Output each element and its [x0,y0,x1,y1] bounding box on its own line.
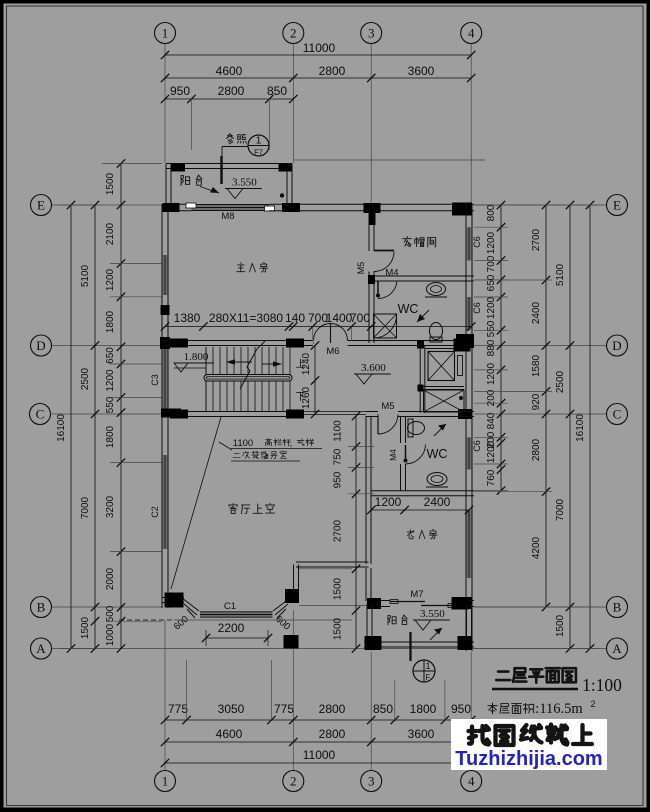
svg-text:760: 760 [486,469,497,486]
stair up arrow [226,359,252,365]
svg-text:2400: 2400 [424,495,451,509]
grid bubble 4 bottom [461,771,482,792]
column balcony top-right [279,164,292,172]
svg-text:2800: 2800 [319,727,346,741]
right outer dim labels [555,263,566,637]
svg-text:1500: 1500 [333,577,344,600]
svg-text:3600: 3600 [408,64,435,78]
svg-text:4600: 4600 [216,64,243,78]
column W-B [165,593,184,608]
void diagonal line [171,417,221,589]
stair side rails [174,347,206,412]
right mid dim chain line [542,201,550,611]
middle dim labels [333,420,344,640]
level arrow bottom [430,628,442,640]
svg-text:1: 1 [425,661,430,671]
svg-text:650: 650 [486,274,497,291]
stair label 上 [296,359,304,367]
svg-text:775: 775 [274,702,294,716]
grid bubble 3 top [361,23,382,44]
svg-text:280X11=3080: 280X11=3080 [209,311,284,325]
label M5 bedroom [356,262,366,275]
svg-text:2200: 2200 [218,621,245,635]
north exterior wall row E segment 3 [348,204,474,211]
svg-text:F: F [426,673,431,682]
dim row 1200/2400 [367,495,473,514]
svg-text:5100: 5100 [80,264,91,287]
label C1 [224,601,236,612]
column D-1 [170,339,188,348]
svg-text:850: 850 [267,84,287,98]
svg-text:A: A [612,641,622,656]
west exterior wall [162,204,168,608]
svg-text:3.550: 3.550 [232,177,257,189]
north exterior wall row E segment 2 [269,204,348,211]
svg-text:C3: C3 [150,374,160,386]
label M4 upper [385,268,398,279]
svg-text:850: 850 [373,702,393,716]
svg-text:500: 500 [105,605,116,622]
reference bubble top [248,135,269,157]
svg-text:950: 950 [451,702,471,716]
cloakroom south wall [372,276,475,281]
column W-C [161,409,181,418]
svg-text:A: A [36,641,46,656]
row A crossing line [162,648,474,650]
svg-text:950: 950 [170,84,190,98]
title scale 1:100 [582,675,622,695]
row B crossing line [299,605,367,607]
label C3 [150,374,160,386]
svg-text:3050: 3050 [218,702,245,716]
railing note leader [219,442,232,450]
elderly west wall [366,568,371,601]
svg-text:B: B [613,600,622,615]
svg-text:WC: WC [427,447,448,461]
svg-text:11000: 11000 [303,41,336,55]
svg-text:4200: 4200 [531,536,542,559]
grid bubble 1 top [155,23,176,44]
grid bubble 3 bottom [361,771,382,792]
svg-text:D: D [612,338,621,353]
svg-text:2: 2 [290,774,297,789]
svg-text:C: C [36,407,45,422]
toilet upper [430,323,443,343]
svg-text:140: 140 [285,311,305,325]
door M7 sliding [390,600,456,608]
east window C6 b [466,297,472,330]
stair down arrow [262,361,282,367]
right mid dim labels [531,228,542,559]
east exterior wall [466,204,472,651]
basin lower [426,473,448,488]
left outer dim chain line [67,201,75,653]
column balcony bottom-left [365,636,382,650]
section line bottom [409,632,411,661]
bottom balcony west wall [367,604,372,649]
grid bubble C right [607,404,628,425]
level mark 3.600 hall [354,362,391,384]
svg-text:7000: 7000 [555,498,566,521]
svg-text:2: 2 [290,26,297,41]
svg-text:4: 4 [468,26,475,41]
grid row line A [52,648,606,650]
svg-text:2400: 2400 [531,301,542,324]
column balcony top-left [171,164,185,172]
west window bedroom [162,255,168,295]
left mid dim labels [80,264,91,639]
label M6 [326,346,339,357]
svg-text:E: E [613,198,621,213]
svg-text:C6: C6 [472,302,482,314]
svg-text:1500: 1500 [333,617,344,640]
svg-text:775: 775 [168,702,188,716]
svg-text:,: , [290,438,293,449]
grid bubble E left [31,195,52,216]
elderly south wall segment R [456,601,474,607]
door M4 lower [404,445,426,465]
svg-text:1500: 1500 [80,616,91,639]
column E4-D [456,334,474,348]
east window C6 c [466,437,472,469]
living step wall vertical [294,565,299,599]
column bay right [285,589,299,603]
left inner dim labels [105,172,116,646]
grid line column 4 [470,44,472,770]
wc arrow lower [434,424,446,436]
svg-text:1200: 1200 [486,231,497,254]
room label 衣帽间 [403,236,436,246]
stair south wall [163,412,303,417]
bay dim 2200 [202,621,272,646]
svg-text:1500: 1500 [555,614,566,637]
grid line column 2 [292,44,294,770]
bay dim 600 left [172,614,191,633]
reference note 参照 [226,134,246,144]
stair label 下 [297,393,305,401]
bottom dim total 11000 [161,748,476,767]
level mark 3.550 bottom [413,608,450,630]
svg-text:800: 800 [486,204,497,221]
living south-east wall [289,598,297,603]
svg-text:M8: M8 [221,211,234,222]
balcony top railing wall [166,164,292,169]
grid bubble D left [31,335,52,356]
svg-text:1500: 1500 [105,172,116,195]
bottom balcony railing [364,642,474,647]
svg-text:M5: M5 [381,401,394,412]
label M4 lower [388,449,398,461]
balcony left wall [166,164,171,205]
svg-text:840: 840 [486,412,497,429]
svg-text:3: 3 [368,26,375,41]
left mid dim chain line [91,201,99,653]
svg-text:1200: 1200 [105,268,116,291]
column W-mid [161,305,170,315]
label C6 a [472,236,482,248]
column D-2 [286,339,304,348]
grid bubble B right [607,597,628,618]
level arrow balcony [200,187,219,194]
title 二层平面图 [496,668,576,682]
left extension lines [60,164,162,649]
svg-text:M4: M4 [388,449,398,461]
living south-west wall [163,598,185,603]
west window C2 [162,455,168,549]
watermark text 找图纸就上 [469,725,593,746]
svg-text:3200: 3200 [105,495,116,518]
grid row line D [52,345,606,347]
grid bubble 4 top [461,23,482,44]
svg-text:16100: 16100 [575,414,586,442]
middle dim chain [299,412,374,653]
svg-text:200: 200 [486,389,497,406]
svg-text:2700: 2700 [333,519,344,542]
svg-text:1: 1 [162,26,169,41]
svg-text:1260: 1260 [301,386,312,409]
right inner dim chain line [497,201,505,495]
grid bubble 1 bottom [155,771,176,792]
label M7 [410,589,423,600]
svg-text:1000: 1000 [105,623,116,646]
elderly south wall segment L [369,601,391,607]
svg-text:2700: 2700 [531,228,542,251]
left outer dim label 16100 [56,414,67,442]
svg-text:F7: F7 [254,148,263,157]
note underline [231,449,322,462]
grid bubble C left [30,404,51,425]
watermark text Tuzhizhijia.com [455,748,602,770]
svg-text:3: 3 [368,774,375,789]
svg-text:WC: WC [398,302,419,316]
top dim row 4600/2800/3600 [161,64,476,82]
door M4 upper [376,281,397,299]
room label 老人房 [407,529,437,538]
right outer dim chain line [566,201,574,653]
grid row line E [52,204,606,206]
svg-text:1200: 1200 [486,362,497,385]
grid bubble 2 bottom [283,771,304,792]
svg-text:3.600: 3.600 [361,362,386,374]
shower upper [374,314,397,338]
svg-text:E: E [37,198,45,213]
grid row line C [52,413,606,415]
svg-text:C6: C6 [472,236,482,248]
svg-text:1: 1 [256,136,262,147]
area label 本层面积 [488,699,596,717]
svg-text:2800: 2800 [319,64,346,78]
svg-text:550: 550 [486,320,497,337]
reference leader top [222,147,248,159]
top dim row 950/2800/850 [161,84,298,103]
svg-text:M6: M6 [326,346,339,357]
svg-text:1100: 1100 [333,420,344,442]
right outmost dim label 16100 [575,414,586,442]
svg-text:1800: 1800 [105,425,116,448]
svg-text:M5: M5 [356,262,366,275]
note 1100 railing line1 [233,438,314,449]
svg-text:950: 950 [333,471,344,488]
elevator shaft walls [420,346,466,414]
right inner dim labels [486,204,497,486]
svg-text:1380: 1380 [174,311,201,325]
svg-text:5100: 5100 [555,263,566,286]
toilet lower [408,419,425,437]
stair dim chain 1240/1260 [301,341,319,418]
basin upper [425,283,447,298]
grid bubble A right [607,638,628,659]
svg-text:920: 920 [531,393,542,410]
stair handrail [204,375,292,382]
balcony dot [280,193,284,197]
column E-2 [282,203,300,212]
level mark 3.550 balcony top [225,177,262,199]
room label WC upper [398,302,419,316]
watermark box [451,719,607,770]
svg-text:1580: 1580 [531,354,542,377]
grid bubble B left [31,597,52,618]
svg-text:3600: 3600 [408,727,435,741]
bay window C1 [200,612,273,618]
window M8 [186,203,275,211]
east window C6 a [466,227,472,260]
svg-text:Tuzhizhijia.com: Tuzhizhijia.com [455,748,602,770]
bottom dim row 4600/2800/3600 [161,727,476,746]
left inner dim chain line [117,159,125,652]
room label 阳台 top [181,175,202,185]
svg-text:1: 1 [162,774,169,789]
svg-text:B: B [37,600,46,615]
balcony right wall [287,164,292,205]
svg-text:2: 2 [590,699,595,709]
svg-text:D: D [36,338,45,353]
svg-text:C6: C6 [472,440,482,452]
grid bubble D right [607,335,628,356]
svg-text:2000: 2000 [105,567,116,590]
svg-text:C: C [613,407,622,422]
stair north wall [163,341,314,346]
west window C3 [162,346,168,411]
svg-text:11000: 11000 [303,748,336,762]
bedroom east wall upper [369,208,374,252]
svg-text:1200: 1200 [105,369,116,392]
svg-text:3.550: 3.550 [420,608,445,620]
svg-text:650: 650 [105,347,116,364]
column cloak corner [368,275,375,284]
svg-text:1200: 1200 [486,296,497,319]
svg-text:1240: 1240 [301,352,312,375]
label C6 c [472,440,482,452]
dashed line row [119,619,352,621]
svg-text:1.800: 1.800 [184,351,209,363]
stair treads [206,347,290,412]
column E-3 [364,203,381,225]
column shaft top [417,339,471,392]
elevator car [428,352,463,381]
svg-text:2800: 2800 [531,438,542,461]
column M7 right [452,598,469,610]
svg-text:2500: 2500 [80,367,91,390]
column W-D [160,337,170,349]
column M7 left [367,598,381,609]
top dim total 11000 [161,41,476,59]
grid line column 1 [164,44,166,770]
bottom dim row 775/3050/775/2800/850/1800/950 [161,702,476,724]
stair break line [240,341,265,389]
label M5 hall [381,401,394,412]
svg-text:2100: 2100 [105,222,116,245]
grid line column 3 [370,44,372,770]
svg-text:700: 700 [350,311,370,325]
reference bubble bottom [413,660,435,682]
bay window angled left [182,598,199,618]
label C2 [150,506,160,518]
svg-text:1100: 1100 [233,438,253,449]
column below bay right [284,635,299,649]
room label 阳台 bottom [388,615,407,625]
hall south wall [366,412,378,417]
living step wall horizontal [296,562,369,567]
room label 客厅上空 [229,503,275,513]
bedroom east wall lower [369,272,374,344]
double door M6 [313,324,348,344]
column C-1 [170,410,188,419]
svg-text:750: 750 [333,448,344,465]
column E4-B [452,597,472,609]
bay window angled right [273,598,290,618]
bottom balcony east wall [467,604,472,649]
svg-text:C1: C1 [224,601,236,612]
svg-text:2500: 2500 [555,370,566,393]
svg-text:700: 700 [486,255,497,272]
svg-text:2800: 2800 [218,84,245,98]
row C wall right of door [398,412,474,417]
north exterior wall row E segment 1 [163,204,192,211]
section line top [220,156,222,184]
right extension lines [293,160,598,649]
row D wall segment right [348,341,475,346]
grid bubble A left [31,638,52,659]
svg-text:M7: M7 [410,589,423,600]
svg-text:2800: 2800 [319,702,346,716]
door M5 hall [378,414,398,434]
living east wall [366,416,371,564]
svg-text:4: 4 [468,774,475,789]
shaft lower box [424,390,465,412]
door M5 bedroom [374,251,394,272]
stair top dim row [161,311,476,341]
stair level 1.800 [174,351,214,372]
room label WC lower [427,447,448,461]
svg-text:4600: 4600 [216,727,243,741]
column balcony bottom-right [458,636,473,650]
svg-text:1800: 1800 [410,702,437,716]
column E-1 [163,203,180,212]
svg-text:C2: C2 [150,506,160,518]
grid bubble E right [607,195,628,216]
wc arrow upper [417,310,429,322]
svg-text:880: 880 [486,339,497,356]
column E4-C [458,409,472,419]
room label 主人房 [237,262,268,272]
note 1100 railing line2 [233,451,287,459]
landing edge lines [302,412,366,415]
column bay left [165,593,184,608]
title underline [492,688,578,691]
svg-text:1800: 1800 [105,310,116,333]
svg-text:1:100: 1:100 [582,675,622,695]
svg-text:550: 550 [105,396,116,413]
